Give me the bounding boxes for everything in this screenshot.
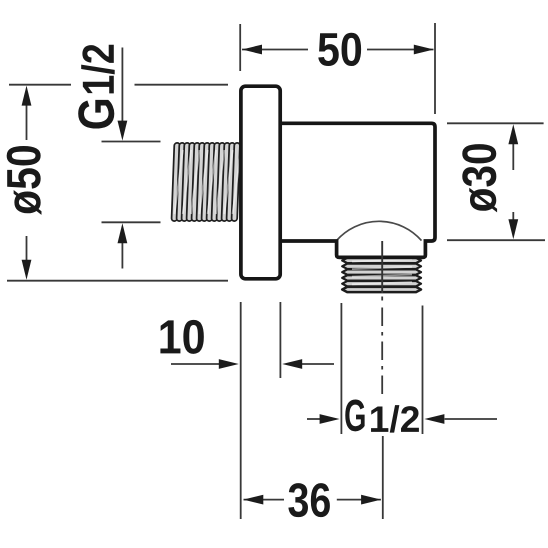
dimension G1/2 (left thread) — [102, 141, 161, 143]
dimension 36 (wall face to outlet axis) — [244, 499, 285, 501]
dimension 10 (flange thickness) — [240, 302, 242, 519]
dimension &#248;50 (left) — [9, 84, 71, 86]
inlet thread G1/2 (left, coil stack) — [171, 143, 241, 221]
dimension &#248;30 (right) — [447, 122, 544, 124]
outlet thread G1/2 (bottom, coil stack) — [342, 258, 421, 292]
wall flange disc ø50 — [241, 86, 280, 279]
dimension G1/2 (outlet thread) — [340, 303, 342, 434]
dimension 50 (top) — [239, 24, 241, 71]
dome arch over outlet — [337, 221, 422, 240]
centerline of outlet — [381, 241, 383, 293]
body block 50x30 — [280, 123, 435, 257]
